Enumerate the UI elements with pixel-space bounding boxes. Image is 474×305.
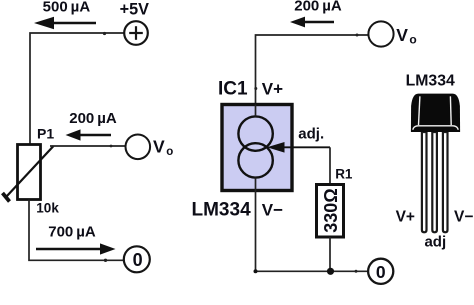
wire stub V- inside box [255,178,257,191]
svg-text:R1: R1 [335,166,353,181]
svg-text:P1: P1 [37,126,54,142]
adj arrow into current source [267,142,330,153]
junction dot on +5V wire [103,32,106,35]
svg-text:200 µA: 200 µA [69,110,117,127]
junction dot R1/rail [327,268,334,275]
svg-text:IC1: IC1 [218,79,248,100]
wire wiper to Vo [50,145,126,147]
current arrow 200 µA (left) [66,129,112,140]
package face highlight left [419,96,420,125]
wiper end bar [3,193,10,202]
junction dot on wiper wire [110,145,113,148]
wire R1 to rail [329,237,331,271]
svg-text:adj: adj [424,234,446,251]
pin V- (right leg) [443,132,448,232]
pin adj (middle leg) [432,132,437,232]
junction dot on V+ wire [356,34,359,37]
potentiometer P1 [18,145,41,200]
transistor package TO-92 body [411,94,460,132]
svg-text:V+: V+ [396,208,415,225]
potentiometer wiper diagonal [7,146,54,197]
pin V+ (left leg) [422,132,427,232]
wire stub V+ inside box [255,105,257,117]
wire adj to R1 [329,147,331,184]
svg-text:adj.: adj. [298,125,324,142]
svg-text:LM334: LM334 [192,200,252,221]
terminal Vo (IC) [368,21,393,46]
current source symbol circle top [238,116,272,150]
package face highlight right [449,96,452,125]
svg-text:LM334: LM334 [406,73,455,90]
terminal +5V [124,21,148,45]
svg-text:200 µA: 200 µA [294,0,342,14]
wire +5V rail [30,33,124,145]
corner dot [254,269,258,273]
svg-text:0: 0 [133,250,143,270]
resistor R1 [317,185,344,238]
terminal 0 (IC) [368,259,393,284]
terminal Vo (left) [126,135,151,160]
svg-text:V−: V− [454,208,473,225]
svg-text:0: 0 [376,262,386,282]
svg-text:V−: V− [262,200,283,219]
current source symbol circle bottom [238,143,272,177]
wire bottom rail (left) [29,200,124,261]
junction dot on bottom rail (left) [104,259,107,262]
package rim highlight [413,126,458,130]
wire V- to rail and bottom rail (IC) [256,191,369,272]
terminal 0 (left) [124,246,150,272]
svg-text:330Ω: 330Ω [321,188,341,232]
wire V+ to Vo (IC) [256,35,369,105]
junction dot on V+ stub [254,87,257,90]
svg-text:V+: V+ [262,80,283,99]
svg-text:500 µA: 500 µA [43,0,91,16]
current arrow 200 µA (IC) [290,17,334,28]
svg-text:700 µA: 700 µA [48,224,96,241]
op-amp box IC1 (LM334 current source) [222,105,292,191]
current arrow 500 µA [34,17,96,29]
current arrow 700 µA [36,243,116,254]
junction dot near terminal [355,270,358,273]
svg-text:+5V: +5V [120,0,149,18]
svg-text:10k: 10k [36,201,59,216]
